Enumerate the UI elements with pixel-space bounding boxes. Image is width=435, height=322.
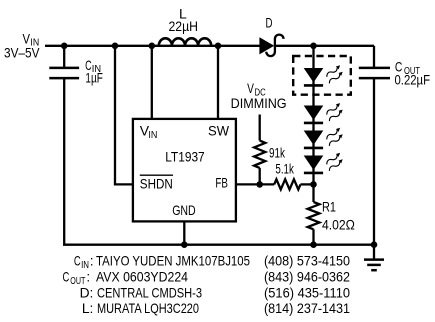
svg-text:D: D <box>266 14 273 30</box>
LED D2 <box>304 106 324 123</box>
wire: VIN pin drop <box>151 46 153 120</box>
svg-text:C: C <box>74 254 81 269</box>
svg-text::: : <box>90 254 94 269</box>
pin label SHDN (with overline) <box>140 175 173 191</box>
svg-text:L:: L: <box>82 301 94 316</box>
ground symbol <box>364 245 384 271</box>
wire: FB pin to node <box>236 183 274 185</box>
BOM note line 2: COUT <box>63 270 351 288</box>
wire: output cap branch <box>373 46 375 245</box>
svg-text:MURATA LQH3C220: MURATA LQH3C220 <box>97 301 199 316</box>
resistor R1 <box>308 202 320 229</box>
label CIN 1µF <box>85 57 103 86</box>
wire: 91k to FB node <box>259 168 261 185</box>
junction GND pin on bus <box>181 241 188 248</box>
svg-text:91k: 91k <box>269 145 285 160</box>
junction CIN tap <box>61 43 68 50</box>
wire: top rail from VIN to diode anode <box>45 45 260 47</box>
svg-text:C: C <box>63 270 70 285</box>
svg-text:TAIYO YUDEN JMK107BJ105: TAIYO YUDEN JMK107BJ105 <box>96 254 250 269</box>
svg-text:AVX 0603YD224: AVX 0603YD224 <box>96 270 188 285</box>
svg-text:(516) 435-1110: (516) 435-1110 <box>264 285 350 300</box>
inductor L <box>159 38 211 46</box>
junction SHDN tap <box>112 43 119 50</box>
svg-text:IN: IN <box>148 130 157 141</box>
junction LED bottom / R1 <box>310 181 317 188</box>
wire: ground bus <box>63 243 374 245</box>
svg-text:3V–5V: 3V–5V <box>4 44 40 60</box>
svg-text:LT1937: LT1937 <box>165 149 205 165</box>
LED D1 <box>304 68 324 85</box>
junction L left / VIN pin <box>149 43 156 50</box>
label VDC DIMMING <box>231 81 287 111</box>
node VIN input label <box>4 31 40 61</box>
LED D4 <box>304 156 324 173</box>
svg-text:(408) 573-4150: (408) 573-4150 <box>264 254 350 269</box>
wire: SHDN tap <box>115 46 134 185</box>
IC U1 LT1937 box <box>133 119 236 221</box>
wire: 5.1k to LED string bottom <box>301 183 314 185</box>
junction FB node <box>256 181 263 188</box>
wire: R1 to ground bus <box>312 229 314 245</box>
resistor 91k <box>254 141 265 168</box>
svg-text:GND: GND <box>172 202 196 218</box>
diode D (Schottky) <box>259 35 283 57</box>
wire: GND pin drop <box>183 221 185 245</box>
svg-text:SW: SW <box>208 123 230 139</box>
wire: VDC to 91k <box>259 115 261 141</box>
resistor 5.1k <box>274 179 300 189</box>
svg-text:4.02Ω: 4.02Ω <box>322 217 355 232</box>
wire: top rail from diode cathode to output corner <box>275 45 374 47</box>
svg-text:DIMMING: DIMMING <box>231 96 287 111</box>
LED D3 <box>304 131 324 148</box>
svg-text:0.22µF: 0.22µF <box>395 71 431 87</box>
svg-text:V: V <box>247 81 254 96</box>
svg-text:CENTRAL CMDSH-3: CENTRAL CMDSH-3 <box>97 285 202 300</box>
label COUT 0.22µF <box>395 59 431 88</box>
svg-text:5.1k: 5.1k <box>275 161 294 176</box>
svg-text:R1: R1 <box>322 200 336 215</box>
junction R1 on bus <box>310 241 317 248</box>
junction L right / SW pin <box>215 43 222 50</box>
junction output branch on bus <box>371 241 378 248</box>
svg-text:D:: D: <box>80 285 94 300</box>
capacitor COUT <box>359 68 390 78</box>
capacitor CIN <box>49 46 79 245</box>
pin label VIN <box>140 123 158 142</box>
BOM note line 1: CIN <box>74 254 350 272</box>
wire: SW pin drop <box>217 46 219 120</box>
svg-text:SHDN: SHDN <box>140 175 173 191</box>
svg-text:FB: FB <box>215 175 228 191</box>
svg-text:(843) 946-0362: (843) 946-0362 <box>264 270 350 285</box>
svg-text:(814) 237-1431: (814) 237-1431 <box>264 301 350 316</box>
dashed outline box around first LED <box>293 56 351 95</box>
BOM note line 3: D <box>80 285 351 300</box>
wire: LED string vertical <box>312 46 314 202</box>
svg-text:22µH: 22µH <box>169 18 199 34</box>
BOM note line 4: L <box>82 301 350 316</box>
svg-text::: : <box>86 270 90 285</box>
junction LED string tap <box>310 43 317 50</box>
svg-text:1µF: 1µF <box>85 70 103 86</box>
